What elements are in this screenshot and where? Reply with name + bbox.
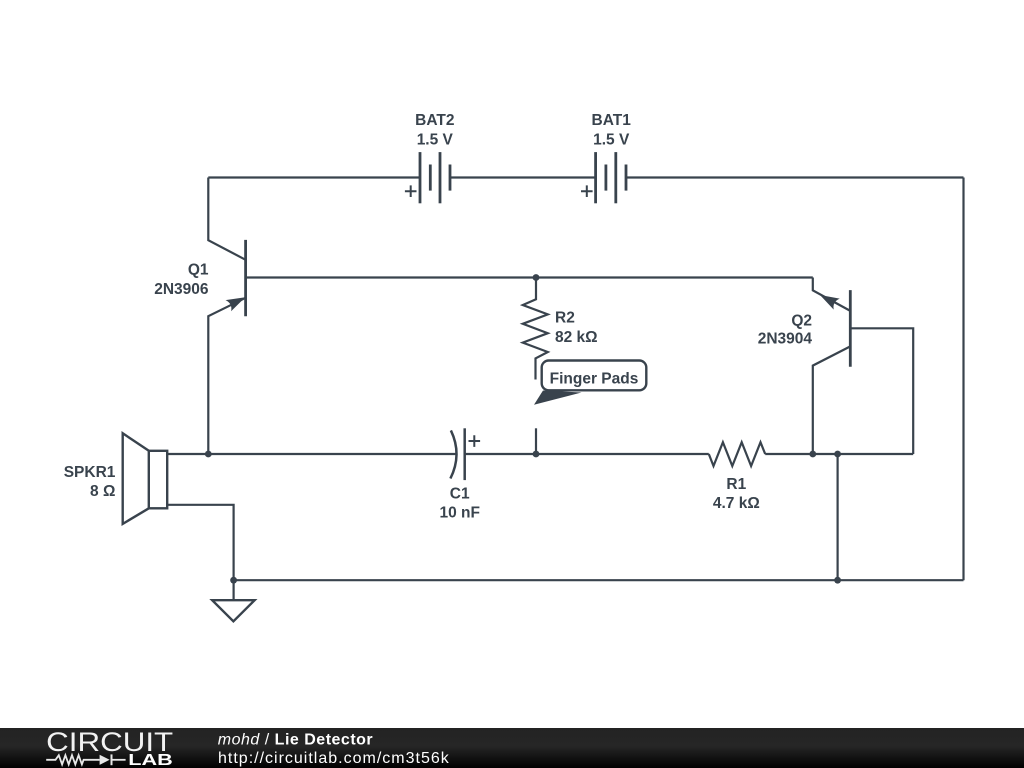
wire middle rail to C1: [208, 453, 456, 455]
wire speaker bottom terminal: [167, 505, 233, 580]
battery BAT1: [596, 152, 626, 203]
logo resistor-diode squiggle: [46, 754, 125, 765]
wire bottom rail: [234, 579, 964, 581]
svg-text:BAT1: BAT1: [592, 112, 632, 129]
svg-text:1.5 V: 1.5 V: [417, 131, 454, 148]
node junction speaker top: [205, 451, 212, 458]
wire middle-to-bottom vertical: [836, 454, 838, 580]
resistor R1: [709, 442, 765, 466]
node junction mid vertical top: [834, 451, 841, 458]
battery BAT2: [420, 152, 450, 203]
svg-text:82 kΩ: 82 kΩ: [555, 329, 598, 346]
wire right vertical rail: [962, 178, 964, 581]
transistor Q2 emitter lead: [813, 278, 851, 311]
svg-text:R2: R2: [555, 310, 575, 327]
svg-text:4.7 kΩ: 4.7 kΩ: [713, 495, 760, 512]
svg-text:BAT2: BAT2: [415, 112, 454, 129]
ground: [233, 580, 235, 600]
footer bar: [0, 728, 1024, 768]
svg-text:10 nF: 10 nF: [439, 504, 479, 521]
node junction mid vertical bottom: [834, 577, 841, 584]
transistor Q1 emitter lead: [208, 298, 245, 454]
transistor Q2 emitter arrow: [820, 295, 840, 310]
svg-text:Finger Pads: Finger Pads: [550, 371, 639, 388]
transistor Q2 base loop wire: [850, 328, 913, 454]
svg-text:Q2: Q2: [791, 313, 812, 330]
node junction R1 right: [809, 451, 816, 458]
svg-text:Q1: Q1: [188, 262, 209, 279]
wire top rail middle segment: [450, 176, 596, 178]
wire top rail left segment: [208, 176, 420, 178]
svg-text:SPKR1: SPKR1: [64, 464, 116, 481]
node junction R2 top: [533, 274, 540, 281]
transistor Q2 base bar: [849, 290, 852, 367]
node junction C1 right: [533, 451, 540, 458]
wire base rail Q1 to Q2: [246, 276, 813, 278]
svg-text:http://circuitlab.com/cm3t56k: http://circuitlab.com/cm3t56k: [218, 750, 450, 767]
annotation Finger Pads callout: [534, 361, 646, 405]
svg-text:8 Ω: 8 Ω: [90, 483, 115, 500]
transistor Q1 base bar: [244, 240, 247, 316]
svg-text:2N3906: 2N3906: [154, 281, 209, 298]
node junction ground: [230, 577, 237, 584]
transistor Q2 collector lead: [813, 346, 851, 454]
wire top rail right segment: [626, 176, 964, 178]
svg-text:1.5 V: 1.5 V: [593, 131, 630, 148]
resistor R2: [523, 278, 548, 380]
svg-text:mohd / Lie Detector: mohd / Lie Detector: [218, 732, 373, 749]
svg-text:LAB: LAB: [128, 752, 173, 768]
wire R1 to Q2: [765, 453, 913, 455]
wire C1 to R1: [465, 453, 709, 455]
transistor Q1 collector lead: [208, 178, 245, 260]
transistor Q1 emitter arrow: [226, 297, 246, 311]
svg-text:C1: C1: [450, 486, 470, 503]
svg-text:R1: R1: [726, 476, 746, 493]
wire speaker top terminal: [167, 453, 208, 455]
speaker SPKR1: [123, 433, 168, 524]
capacitor C1: [450, 430, 456, 478]
svg-text:2N3904: 2N3904: [758, 330, 813, 347]
wire finger pad lower stub: [535, 428, 537, 454]
